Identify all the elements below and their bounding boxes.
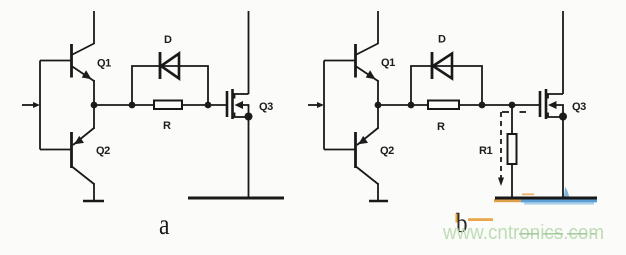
ground rail (a) bbox=[188, 197, 284, 200]
svg-text:Q3: Q3 bbox=[572, 101, 586, 113]
ground Q2 (a) bbox=[83, 200, 104, 203]
node R1 junction (b) bbox=[509, 102, 516, 109]
diode D (b) bbox=[432, 52, 452, 79]
dashed current arrow (b) bbox=[498, 112, 526, 186]
resistor R1 bbox=[508, 134, 517, 164]
blue highlight on rail (b) bbox=[521, 187, 597, 205]
svg-text:R1: R1 bbox=[479, 145, 493, 157]
svg-text:a: a bbox=[159, 208, 170, 241]
wire diode branch (a) bbox=[132, 66, 208, 105]
wire Q2 collector to ground (b) bbox=[377, 183, 379, 201]
svg-text:www.cntronics.com: www.cntronics.com bbox=[442, 222, 604, 244]
orange highlight under rail left (b) bbox=[494, 199, 521, 202]
wire Q2 base lead bbox=[40, 149, 71, 151]
node D/R right (a) bbox=[205, 102, 212, 109]
node source junction (a) bbox=[245, 113, 253, 121]
wire drain (b) bbox=[562, 11, 564, 94]
wire resistor to gate (b) bbox=[459, 104, 540, 106]
wire base rail (circuit b) bbox=[323, 61, 325, 150]
wire drain (a) bbox=[248, 11, 250, 94]
wire base rail (circuit a) bbox=[39, 61, 41, 150]
transistor Q1 (b) bbox=[356, 44, 379, 82]
wire Q2 emitter from node bbox=[93, 105, 95, 129]
wire Q2 collector to ground bbox=[93, 183, 95, 201]
wire source to ground (b) bbox=[562, 117, 564, 198]
wire Q2 base lead (b) bbox=[324, 149, 355, 151]
wire R1 top lead bbox=[511, 105, 513, 134]
wire Q1 collector (b) bbox=[377, 11, 379, 44]
wire resistor to gate (a) bbox=[182, 104, 227, 106]
svg-text:R: R bbox=[437, 121, 445, 133]
watermark strikethrough dashes bbox=[519, 233, 596, 235]
orange dash right of label b bbox=[468, 218, 493, 221]
mosfet Q3 (b) bbox=[540, 89, 563, 119]
mosfet Q3 (a) bbox=[227, 89, 249, 119]
transistor Q1 bbox=[72, 44, 95, 82]
input arrow (circuit b) bbox=[308, 102, 324, 108]
node D/R left (a) bbox=[129, 102, 136, 109]
node D/R left (b) bbox=[408, 102, 415, 109]
resistor R (b) bbox=[428, 101, 459, 110]
diode D (a) bbox=[160, 52, 179, 79]
svg-text:Q3: Q3 bbox=[259, 101, 273, 113]
wire source to ground (a) bbox=[248, 117, 250, 198]
resistor R (a) bbox=[154, 101, 182, 110]
orange dash above rail (b) bbox=[522, 193, 534, 195]
wire Q2 emitter from node (b) bbox=[377, 105, 379, 129]
svg-text:Q1: Q1 bbox=[97, 58, 111, 70]
wire Q1 emitter to node (b) bbox=[377, 80, 379, 105]
ground Q2 (b) bbox=[369, 200, 388, 203]
wire Q1 base lead (b) bbox=[324, 60, 355, 62]
svg-text:Q2: Q2 bbox=[380, 145, 394, 157]
svg-text:R: R bbox=[163, 120, 171, 132]
orange mark on label b stem bbox=[456, 213, 460, 223]
ground rail (b) bbox=[495, 197, 597, 200]
node emitter junction (a) bbox=[91, 102, 98, 109]
node D/R right (b) bbox=[479, 102, 486, 109]
transistor Q2 (b) bbox=[356, 128, 379, 184]
svg-text:Q1: Q1 bbox=[381, 57, 395, 69]
wire node to resistor (b) bbox=[378, 104, 428, 106]
wire node to resistor (a) bbox=[94, 104, 154, 106]
wire diode branch (b) bbox=[411, 66, 482, 105]
wire R1 bottom lead bbox=[511, 164, 513, 198]
transistor Q2 bbox=[72, 128, 95, 184]
svg-text:D: D bbox=[164, 34, 172, 46]
wire Q1 emitter to node bbox=[93, 80, 95, 105]
node emitter junction (b) bbox=[375, 102, 382, 109]
node source junction (b) bbox=[559, 113, 567, 121]
svg-text:Q2: Q2 bbox=[96, 145, 110, 157]
wire Q1 collector bbox=[93, 11, 95, 44]
svg-text:D: D bbox=[438, 34, 446, 46]
input arrow (circuit a) bbox=[22, 102, 40, 108]
wire Q1 base lead bbox=[40, 60, 71, 62]
